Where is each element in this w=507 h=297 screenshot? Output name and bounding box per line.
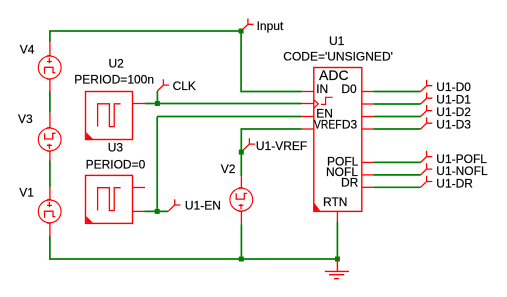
svg-text:ADC: ADC [319, 67, 349, 83]
wire DR [374, 186, 421, 188]
pin stub clock [302, 103, 314, 105]
pin stub D1 [362, 103, 374, 105]
pin stub IN [302, 91, 314, 93]
node ground junction [335, 257, 340, 262]
wire Input column down to ADC IN [241, 31, 301, 92]
voltage source V3 (rotated 180) [38, 113, 61, 161]
node U1-D0 tie [421, 80, 433, 92]
voltage source V4 [38, 42, 61, 91]
wire EN horizontal to ADC [157, 116, 301, 118]
pin stub DR [362, 186, 374, 188]
svg-text:U3: U3 [108, 141, 124, 155]
wire D1 [374, 103, 421, 105]
svg-text:DR: DR [341, 176, 359, 190]
node Input tie [242, 19, 254, 31]
node U1-VREF tie [243, 138, 255, 150]
svg-text:CLK: CLK [173, 79, 196, 93]
node U1-VREF junction [239, 150, 244, 155]
node U1-D2 tie [421, 105, 433, 117]
svg-text:U1-D3: U1-D3 [436, 118, 471, 132]
wire V3 to V1 [49, 161, 51, 188]
wire bottom rail [50, 235, 338, 259]
node U1-D1 tie [421, 92, 433, 104]
wire RTN to ground rail [336, 221, 338, 259]
svg-text:U1-VREF: U1-VREF [256, 139, 307, 153]
svg-text:PERIOD=100n: PERIOD=100n [74, 73, 154, 87]
wire V4 to V3 [49, 91, 51, 113]
svg-text:CODE='UNSIGNED': CODE='UNSIGNED' [283, 49, 393, 63]
svg-text:RTN: RTN [323, 195, 347, 209]
node U1-POFL tie [421, 151, 433, 163]
node CLK junction [155, 101, 160, 106]
wire U3 output to EN junction [144, 210, 168, 212]
wire CLK stub up [156, 91, 158, 104]
pin stub EN [302, 116, 314, 118]
pin stub VREF [302, 128, 314, 130]
svg-text:U1-DR: U1-DR [436, 177, 473, 191]
svg-text:V1: V1 [19, 186, 34, 200]
pin stub POFL [362, 161, 374, 163]
wire POFL [374, 161, 421, 163]
svg-text:PERIOD=0: PERIOD=0 [86, 157, 146, 171]
node Input junction [239, 29, 244, 34]
svg-text:V3: V3 [18, 112, 33, 126]
node U1-NOFL tie [421, 163, 433, 175]
node V2 rail junction [239, 257, 244, 262]
svg-text:D3: D3 [342, 118, 358, 132]
svg-text:Input: Input [257, 19, 284, 33]
node CLK tie [157, 79, 169, 91]
ground [325, 259, 349, 279]
svg-text:U1-EN: U1-EN [185, 199, 221, 213]
svg-text:IN: IN [316, 82, 328, 96]
wire D3 [374, 128, 421, 130]
pin stub D2 [362, 116, 374, 118]
wire D0 [374, 91, 421, 93]
wire VREF column [241, 129, 301, 176]
voltage source V2 (rotated 180) [230, 176, 253, 224]
svg-text:VREF: VREF [314, 118, 342, 132]
wire top from V4 to Input node [50, 31, 241, 42]
node U1-D3 tie [421, 117, 433, 129]
svg-text:V4: V4 [20, 43, 35, 57]
pin stub NOFL [362, 174, 374, 176]
svg-text:D0: D0 [341, 82, 357, 96]
op-amp U1 ADC block [314, 68, 362, 212]
svg-text:U2: U2 [109, 57, 125, 71]
pin stub D3 [362, 128, 374, 130]
node U1-DR tie [421, 176, 433, 188]
node U1-EN junction [155, 209, 160, 214]
pulse source U2 [86, 92, 146, 140]
wire D2 [374, 116, 421, 118]
pulse source U3 [86, 175, 146, 223]
wire EN vertical [156, 117, 158, 212]
svg-text:U1: U1 [329, 34, 345, 48]
pin stub D0 [362, 91, 374, 93]
wire NOFL [374, 174, 421, 176]
node U1-EN tie [169, 199, 181, 211]
wire V2 bottom to rail [240, 224, 242, 259]
wire U2 output to ADC clock pin [145, 103, 302, 105]
svg-text:V2: V2 [221, 162, 236, 176]
pin stub RTN [336, 211, 338, 221]
voltage source V1 [38, 187, 61, 235]
